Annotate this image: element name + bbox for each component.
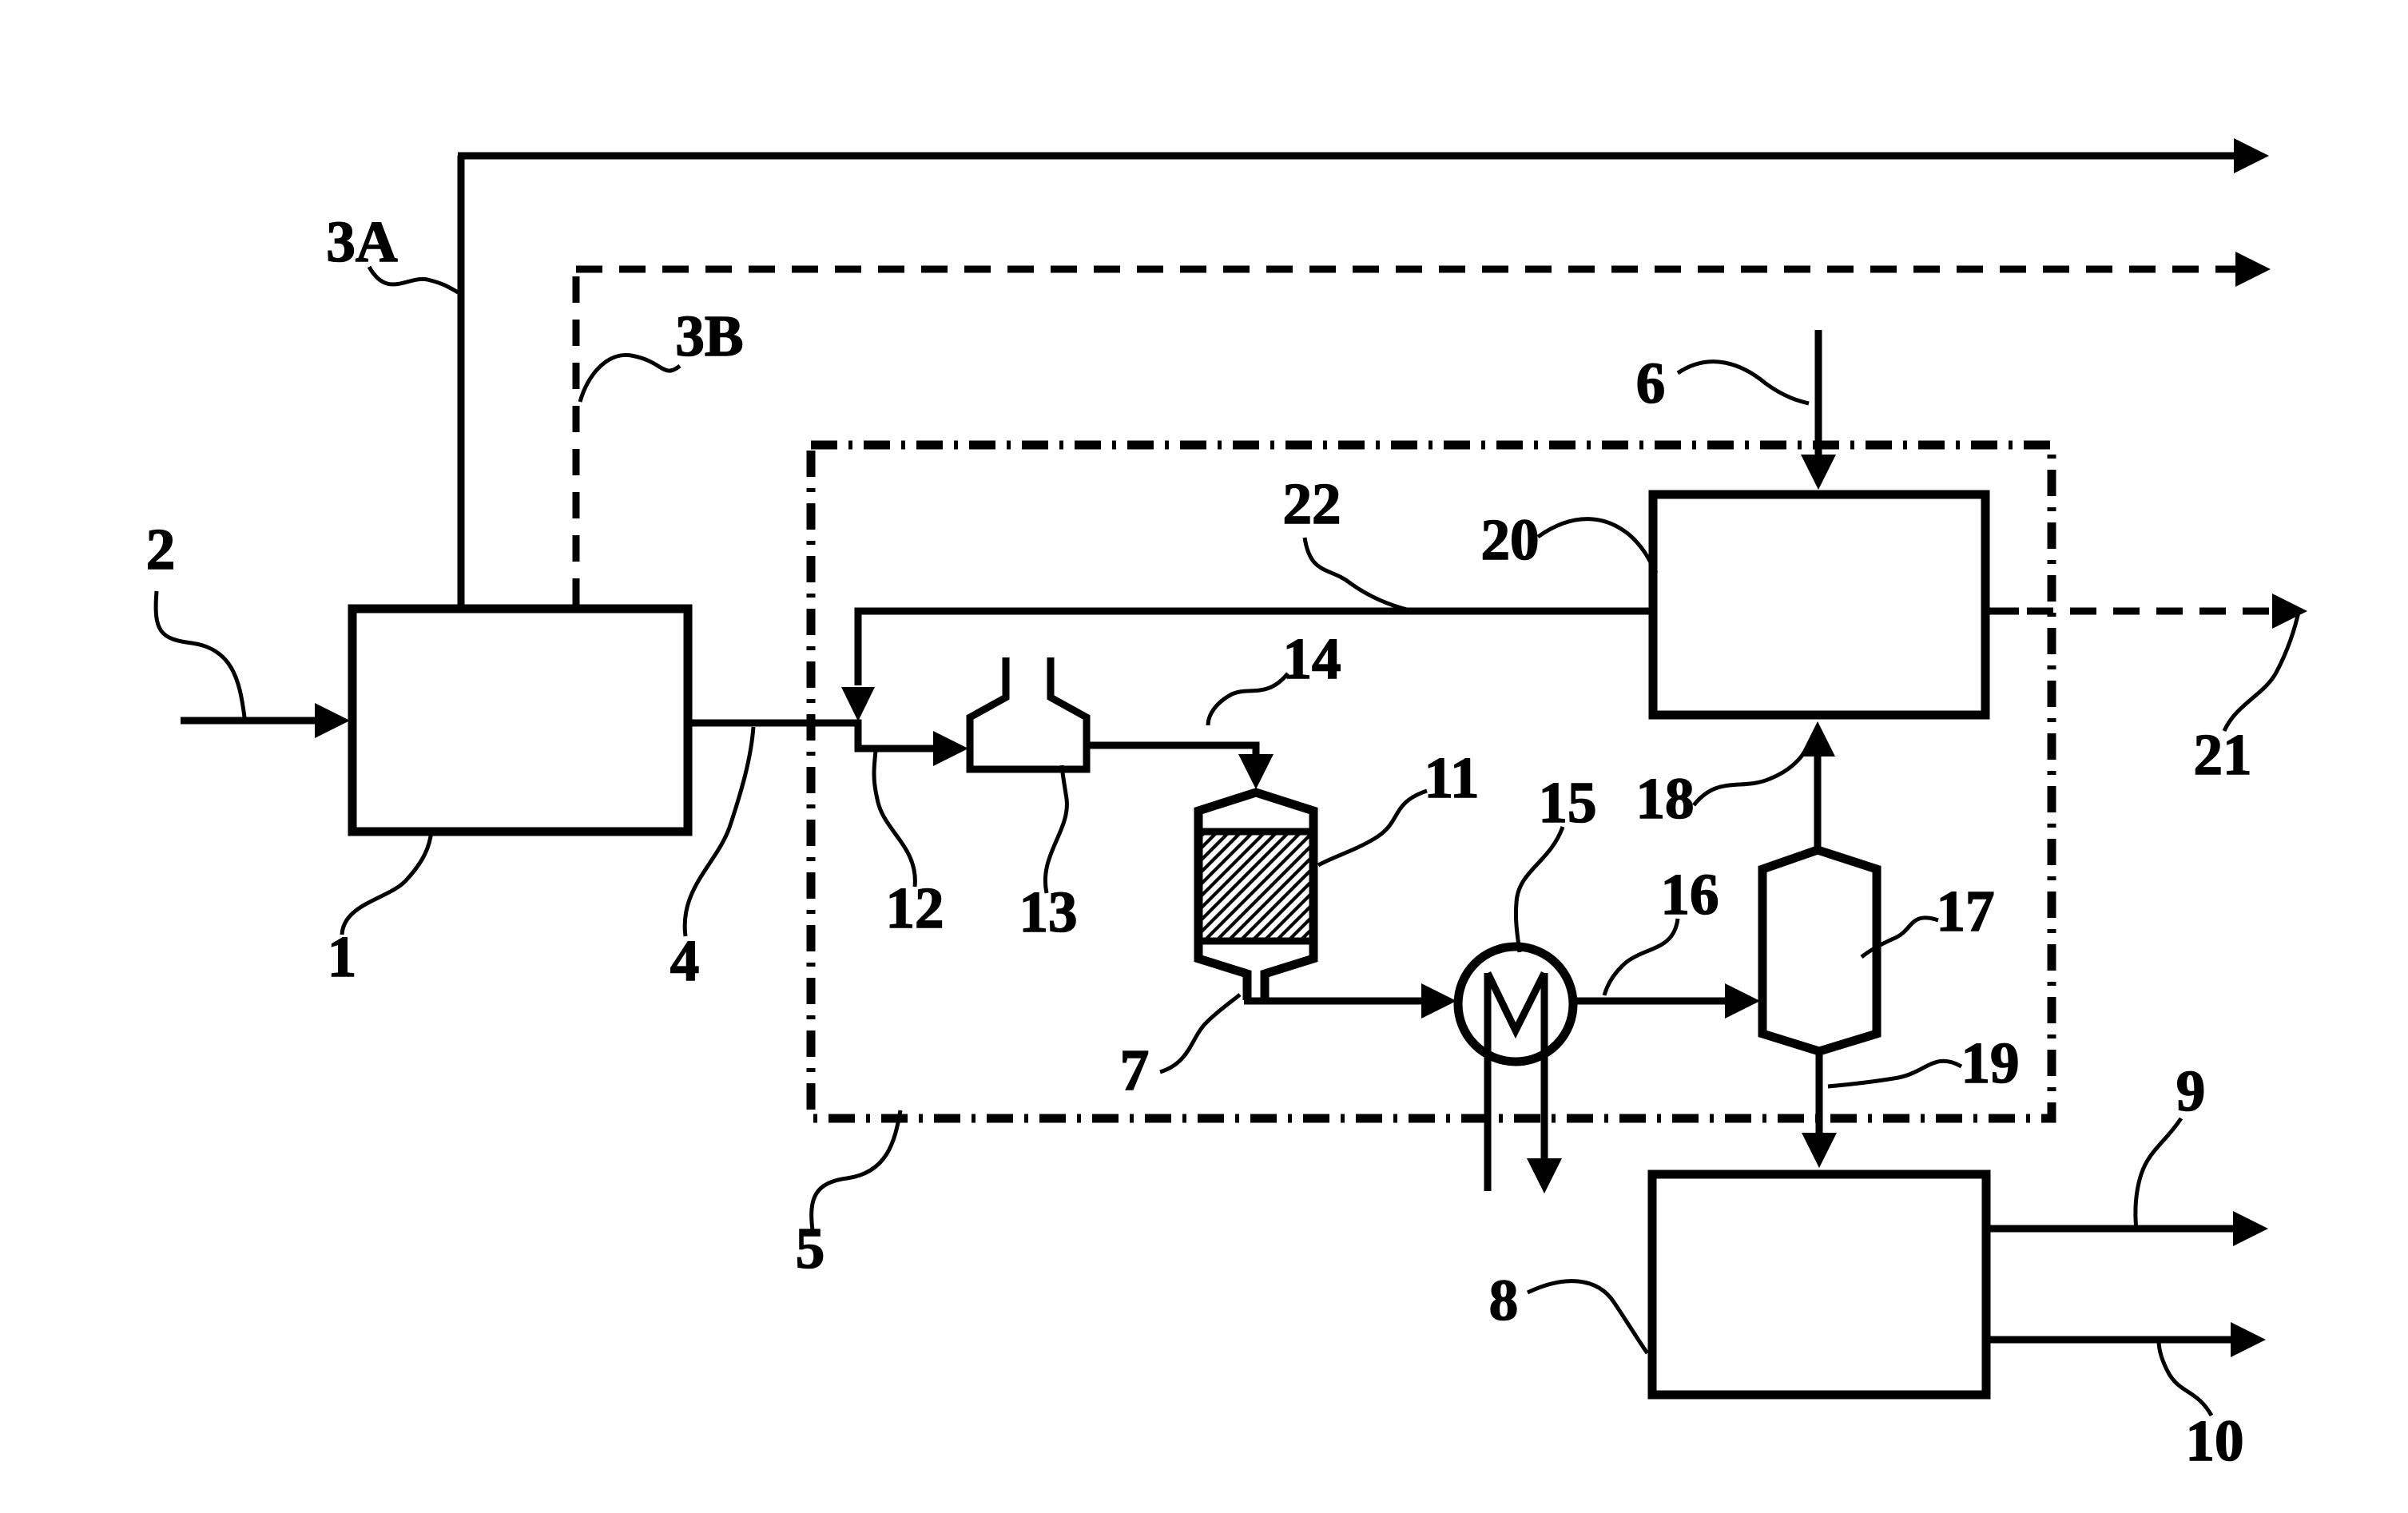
svg-text:8: 8 [1489,1268,1519,1332]
stream 10 outlet arrow from box 8 [1986,1336,2235,1344]
svg-text:15: 15 [1539,770,1597,835]
leader 18 [1694,747,1807,805]
box 8 [1652,1174,1986,1395]
wire 3B dashed vertical [573,269,580,605]
reactor 11 bed top line [1198,828,1313,836]
leader 9 [2136,1118,2181,1230]
svg-text:9: 9 [2176,1058,2206,1123]
svg-text:3B: 3B [675,304,743,368]
svg-text:14: 14 [1283,626,1341,691]
leader 6 [1678,362,1809,403]
arrowhead stream 16 into separator 17 [1725,983,1760,1019]
svg-text:3A: 3A [326,209,398,274]
wire 3A horizontal top line [458,153,2239,160]
arrowhead stream 19 down into box 8 [1802,1133,1837,1168]
stream 16 from heat exchanger to separator 17 [1573,998,1732,1005]
svg-text:13: 13 [1019,880,1078,944]
svg-text:11: 11 [1425,745,1480,810]
arrowhead stream 21 right [2272,594,2307,629]
stream 7 outlet line to heat exchanger 15 [1244,998,1428,1005]
heat exchanger 15 circle [1458,947,1573,1062]
reactor 11 bed bottom line [1198,938,1313,945]
svg-text:20: 20 [1481,507,1540,572]
svg-text:19: 19 [1961,1031,2020,1095]
wire 3A vertical from box 1 to top [458,156,465,605]
leader 16 [1604,919,1678,995]
separator vessel 17 outline [1762,850,1877,1051]
leader 8 [1528,1281,1647,1353]
wire 3B dashed horizontal [576,266,2237,273]
leader 21 [2224,609,2299,731]
leader 3B [580,355,680,402]
stream 18 from separator 17 up to box 20 [1814,751,1822,850]
arrowhead stream 22 down into junction [841,687,875,721]
arrowhead stream 14 down into reactor 11 [1238,754,1274,789]
leader 10 [2159,1340,2211,1416]
stream 19 from separator 17 down to box 8 [1816,1051,1823,1138]
heat exchanger 15 cooling line left [1484,973,1492,1191]
stream 4 from box 1 to junction [688,723,940,749]
arrowhead 3A right [2234,138,2269,173]
leader 14 [1208,673,1288,725]
svg-text:2: 2 [146,517,176,582]
leader 15 [1516,827,1563,952]
svg-text:22: 22 [1283,471,1341,536]
svg-text:4: 4 [670,928,700,993]
stream 14 from funnel 13 to reactor 11 [1087,745,1256,760]
arrowhead stream 6 down into box 20 [1801,455,1836,490]
stream 9 outlet arrow from box 8 [1986,1225,2237,1233]
leader 3A [369,267,461,294]
arrowhead cooling outlet down [1527,1158,1562,1193]
leader 19 [1828,1061,1961,1086]
box 20 [1653,494,1985,715]
arrowhead stream 18 up into box 20 [1800,721,1835,756]
svg-text:18: 18 [1636,766,1695,831]
svg-text:16: 16 [1661,862,1719,927]
leader 22 [1305,538,1410,610]
funnel 13 [970,657,1087,769]
stream 6 arrow into box 20 [1815,330,1822,461]
arrowhead 3B right [2235,252,2271,287]
svg-text:21: 21 [2194,722,2252,787]
leader 5 [812,1110,900,1230]
arrowhead stream 4 into funnel 13 [933,731,968,766]
leader 1 [342,831,431,935]
leader 2 [156,591,244,717]
svg-text:7: 7 [1120,1038,1150,1102]
stream 2 arrow into box 1 [181,717,320,725]
box 1 [352,609,688,832]
leader 7 [1160,995,1240,1072]
svg-text:6: 6 [1636,351,1666,415]
leader 17 [1862,918,1938,957]
leader 4 [685,727,753,936]
arrowhead into heat exchanger 15 [1421,983,1456,1019]
leader 20 [1538,519,1656,573]
leader 13 [1045,765,1067,893]
reactor 11 catalyst bed hatched [1202,832,1309,941]
stream 22 recycle line from box 20 to junction [858,611,1649,685]
heat exchanger 15 V shape [1488,973,1544,1031]
leader 12 [874,751,915,887]
leader 11 [1318,791,1427,865]
svg-text:10: 10 [2186,1408,2244,1473]
heat exchanger 15 cooling line right [1541,973,1548,1162]
svg-text:17: 17 [1937,879,1995,943]
stream 21 dashed outlet from box 20 [1989,608,2019,615]
boundary box 5 dash-dot [811,445,2052,1118]
reactor vessel 11 outline with bottom nozzle [1198,792,1313,1000]
